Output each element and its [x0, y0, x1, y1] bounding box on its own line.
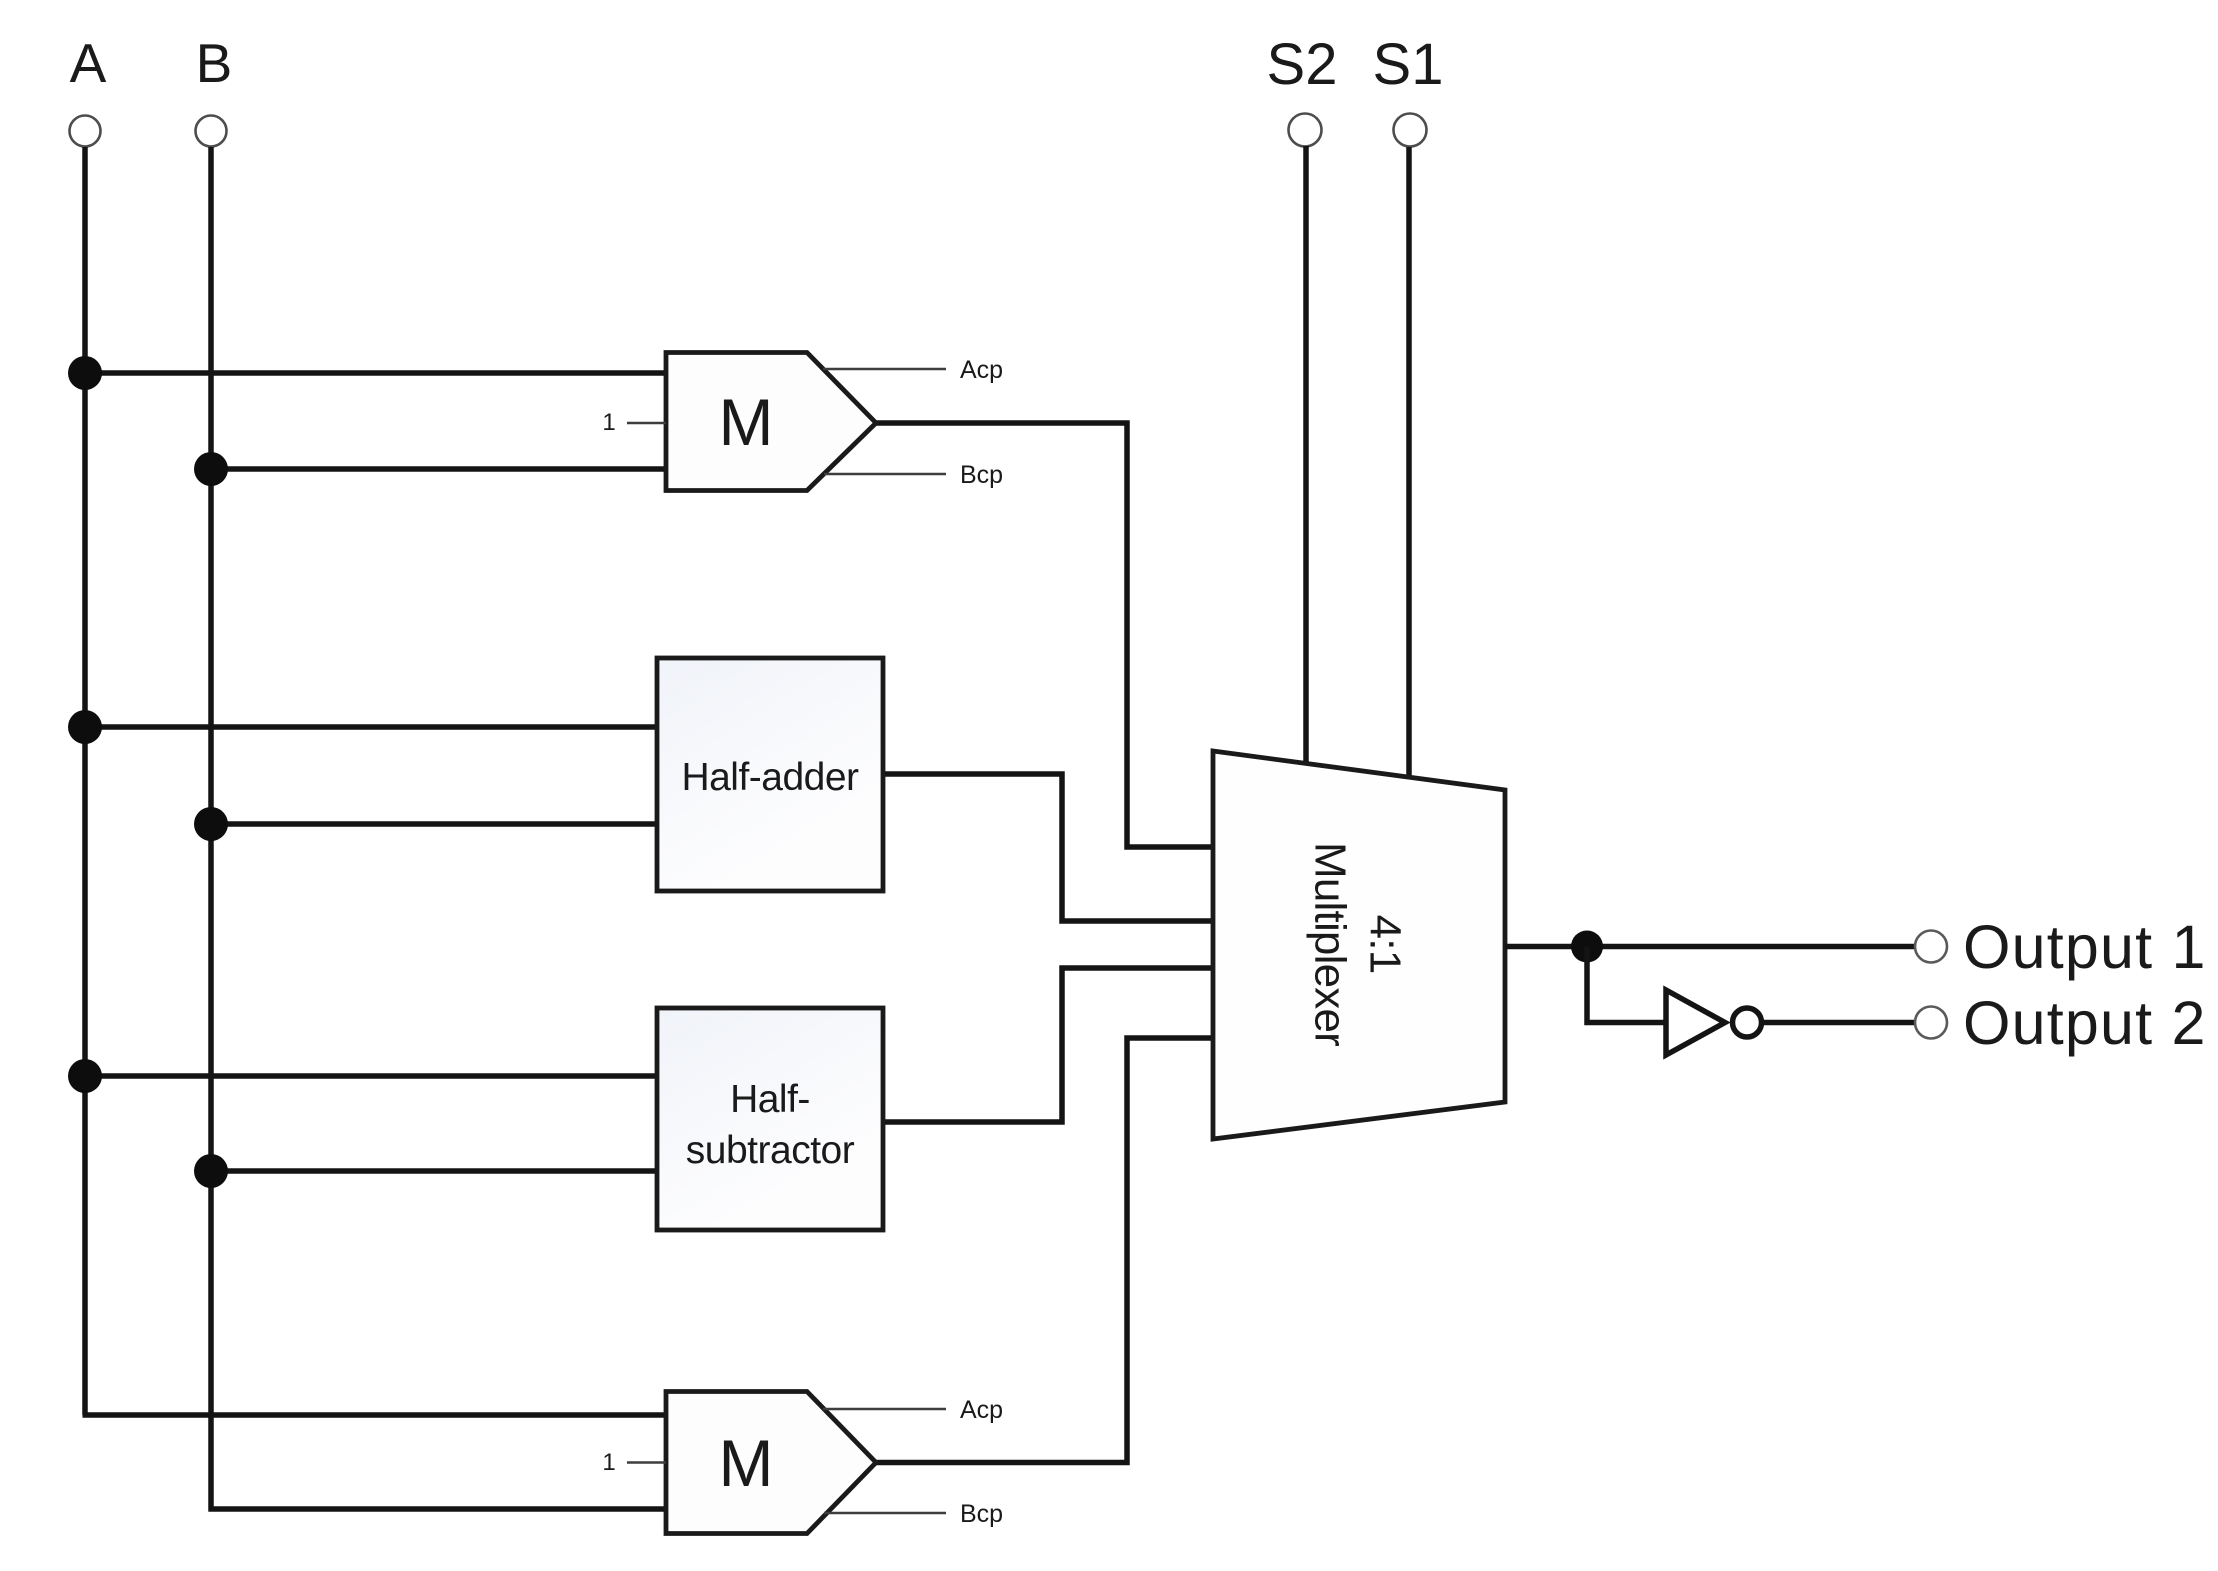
comparator M1 pin Bcp stub: [824, 473, 946, 475]
wire B to half-adder: [211, 821, 658, 827]
junction B to half-adder: [194, 807, 228, 841]
node Output 1 label: [1963, 913, 2207, 981]
node Output 2 label: [1963, 989, 2207, 1057]
wire half-subtractor output to multiplexer input 3: [883, 968, 1213, 1122]
multiplexer U1 body: [1213, 751, 1505, 1139]
node S1 input label: [1373, 32, 1444, 97]
svg-text:M: M: [719, 1426, 774, 1500]
wire A to half-adder: [85, 724, 658, 730]
comparator M2 pin Acp label: [960, 1396, 1003, 1424]
comparator M1 body: [666, 353, 876, 491]
comparator M2 pin Acp stub: [823, 1408, 946, 1410]
comparator M1 label M: [719, 385, 774, 459]
wire comparator M1 output to multiplexer input 1: [876, 423, 1213, 847]
svg-text:4:1: 4:1: [1361, 915, 1410, 974]
comparator M2 constant 1 label: [602, 1449, 615, 1476]
terminal Output 2: [1915, 1007, 1947, 1039]
inverter U2 bubble: [1733, 1008, 1762, 1037]
half-adder label: [681, 756, 859, 799]
comparator M2 constant 1 input stub: [627, 1461, 666, 1463]
wire multiplexer output to Output 1: [1505, 944, 1915, 950]
svg-text:Bcp: Bcp: [960, 1500, 1003, 1528]
terminal S1: [1394, 114, 1427, 147]
junction A to M1: [68, 356, 102, 390]
svg-text:S2: S2: [1267, 32, 1338, 97]
terminal A: [70, 116, 101, 147]
junction B to M1: [194, 452, 228, 486]
svg-text:A: A: [70, 32, 107, 94]
terminal Output 1: [1915, 931, 1947, 963]
comparator M2 body: [666, 1392, 876, 1534]
junction B to half-subtractor: [194, 1154, 228, 1188]
junction A to half-subtractor: [68, 1059, 102, 1093]
comparator M2 label M: [719, 1426, 774, 1500]
wire half-adder output to multiplexer input 2: [883, 774, 1213, 921]
node S2 input label: [1267, 32, 1338, 97]
half-adder body: [657, 658, 883, 891]
comparator M1 pin Bcp label: [960, 461, 1003, 489]
svg-text:Output 2: Output 2: [1963, 989, 2207, 1057]
wire S1 to multiplexer: [1406, 147, 1412, 780]
inverter U2 triangle: [1666, 990, 1725, 1055]
svg-text:Output 1: Output 1: [1963, 913, 2207, 981]
svg-text:Acp: Acp: [960, 1396, 1003, 1424]
junction A to half-adder: [68, 710, 102, 744]
half-subtractor body: [657, 1008, 883, 1230]
wire A to comparator M1: [85, 370, 667, 376]
node A input label: [70, 32, 107, 94]
comparator M2 pin Bcp stub: [824, 1512, 946, 1514]
svg-text:S1: S1: [1373, 32, 1444, 97]
wire B to half-subtractor: [211, 1168, 658, 1174]
comparator M1 constant 1 label: [602, 409, 615, 436]
wire A vertical bus: [82, 147, 88, 1415]
terminal B: [196, 116, 227, 147]
wire S2 to multiplexer: [1303, 146, 1309, 766]
svg-text:M: M: [719, 385, 774, 459]
comparator M2 pin Bcp label: [960, 1500, 1003, 1528]
comparator M1 constant 1 input stub: [627, 422, 666, 424]
svg-text:Multiplexer: Multiplexer: [1306, 842, 1355, 1046]
wire A to comparator M2: [83, 1412, 668, 1418]
wire B vertical bus: [208, 147, 214, 1512]
wire B to comparator M2: [209, 1506, 668, 1512]
wire comparator M2 output to multiplexer input 4: [876, 1038, 1213, 1463]
svg-text:Bcp: Bcp: [960, 461, 1003, 489]
junction output branch: [1571, 931, 1603, 963]
wire branch to inverter: [1587, 947, 1664, 1023]
svg-text:1: 1: [602, 1449, 615, 1476]
svg-text:B: B: [196, 32, 233, 94]
wire A to half-subtractor: [85, 1073, 658, 1079]
svg-text:1: 1: [602, 409, 615, 436]
node B input label: [196, 32, 233, 94]
half-subtractor label: [686, 1078, 855, 1172]
svg-text:Half-: Half-: [730, 1078, 810, 1121]
svg-text:Acp: Acp: [960, 356, 1003, 384]
wire B to comparator M1: [211, 466, 667, 472]
wire inverter to Output 2: [1764, 1020, 1915, 1026]
comparator M1 pin Acp label: [960, 356, 1003, 384]
svg-text:Half-adder: Half-adder: [681, 756, 859, 799]
terminal S2: [1289, 114, 1322, 147]
svg-text:subtractor: subtractor: [686, 1129, 855, 1172]
multiplexer U1 label 4:1 Multiplexer: [1306, 842, 1410, 1046]
comparator M1 pin Acp stub: [823, 368, 946, 370]
